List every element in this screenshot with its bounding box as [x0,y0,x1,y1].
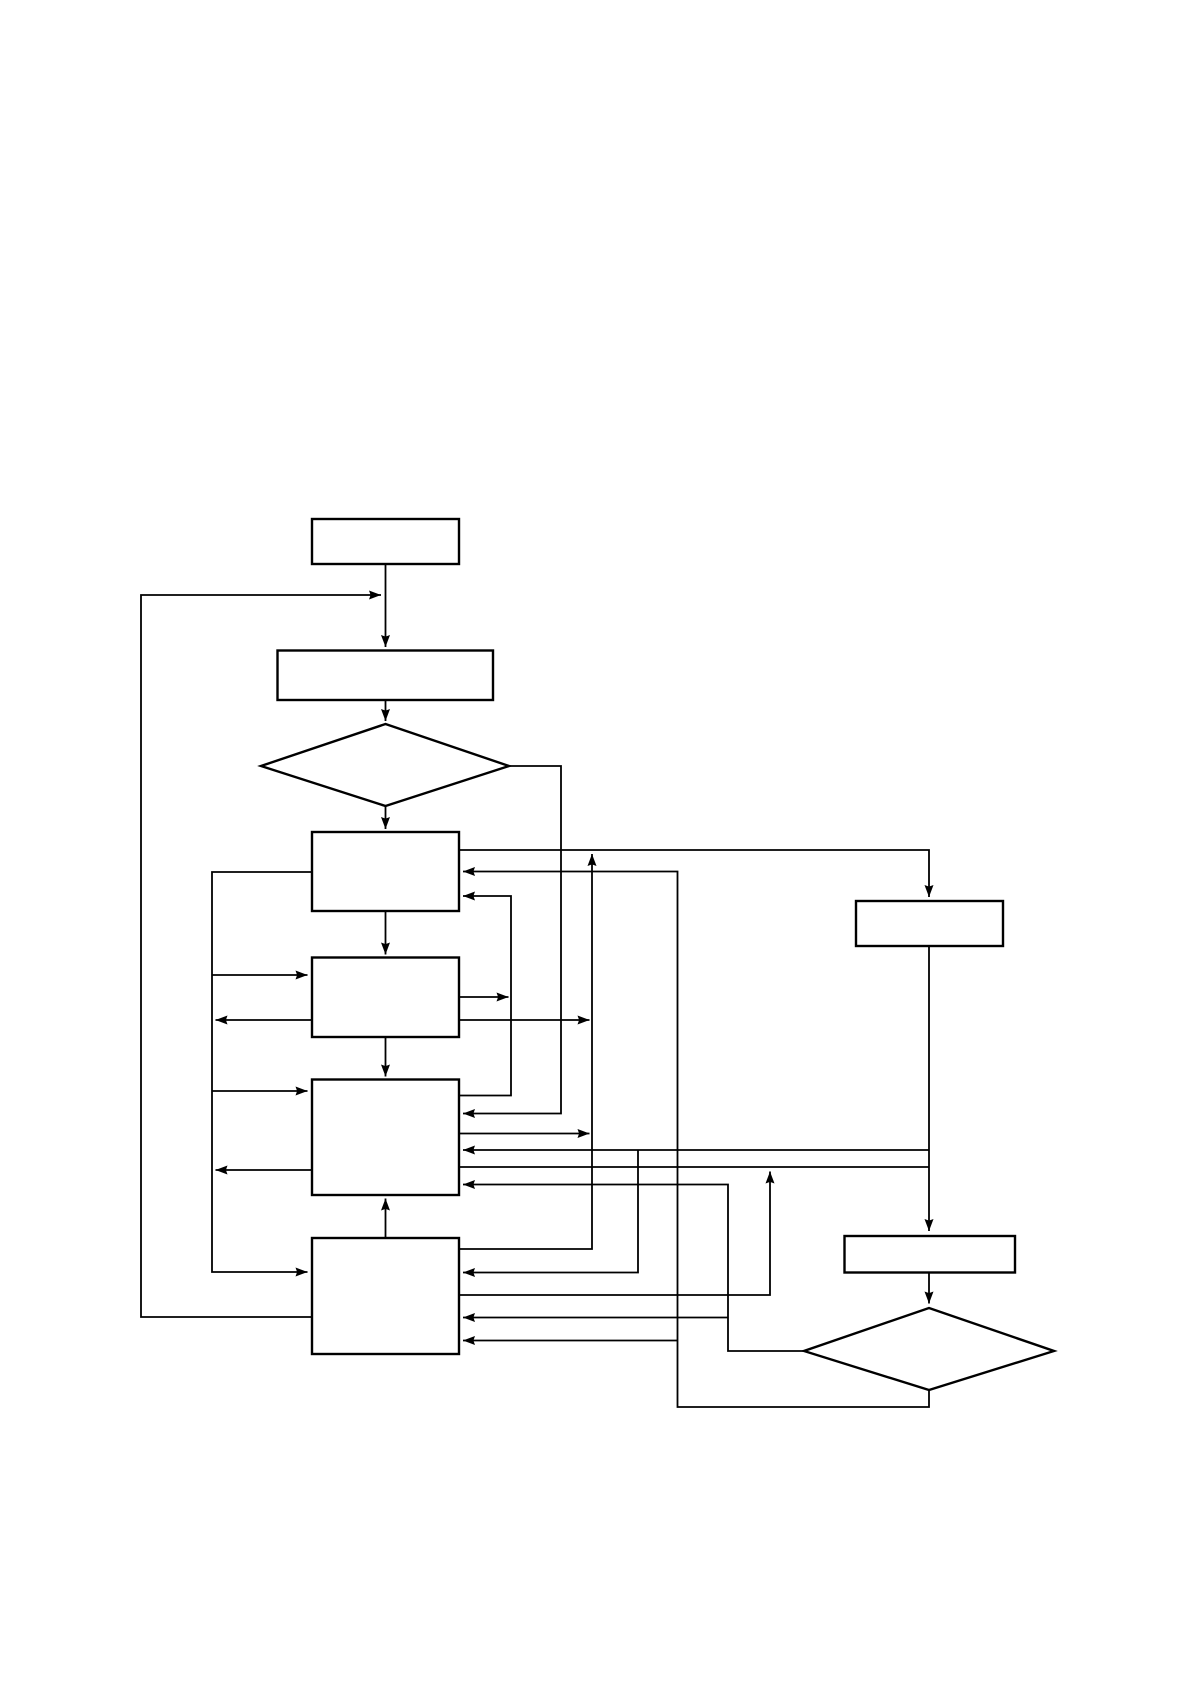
wire B5 right up to B3 right arrow [459,896,511,1096]
wire bus branch arrow into B4 left [212,974,308,976]
diamond D1 [261,724,509,806]
wire branch from D2-left line into B6 arrow [463,1317,728,1319]
wire branch down from B5 line into B6 arrow [463,1150,638,1273]
wire D1 to B3 arrow down [385,806,387,829]
wire B6 right up arrow to B5 1167 line [459,1172,770,1296]
box B5 [312,1080,459,1196]
wire B4 left out arrow to bus [216,1019,313,1021]
box B4 [312,958,459,1038]
wire B5 left out arrow to bus [216,1169,313,1171]
wire B6 right up arrow to B3-BA line [459,854,592,1249]
wire D2 left vertex up to B5 right arrow [463,1185,804,1352]
box B3 [312,832,459,911]
wire bus branch arrow into B5 left [212,1090,308,1092]
wire D1 right vertex down to B5 right arrow [463,766,561,1114]
wire B4 right out arrow long [459,1019,590,1021]
wire B3 right to BA top arrow [459,850,929,897]
wire left bus from B3 left down to B6 left arrow [212,872,312,1272]
wire B5 right out to BA-BB line [459,1166,929,1168]
wire D2 bottom vertex up to B3 right arrow [463,872,929,1408]
box BB right lower [845,1236,1016,1273]
diamond D2 [804,1308,1054,1390]
box B6 [312,1238,459,1354]
wire BB to D2 arrow down [928,1273,930,1304]
wire B3 to B4 arrow down [385,911,387,955]
wire from BA-BB line left arrow into B5 [463,1149,929,1151]
wire BA to BB arrow down [928,946,930,1231]
wire B6 to B5 arrow up [385,1199,387,1239]
box B1 top start [312,519,459,564]
wire branch from D2-bottom line into B6 arrow [463,1340,678,1342]
wire B2 to D1 arrow down [385,700,387,721]
wire B4 to B5 arrow down [385,1037,387,1077]
wire B4 right out arrow short [459,996,509,998]
wire B1 to B2 arrow down [385,564,387,647]
box BA right upper [856,901,1003,946]
wire long feedback from B6 left up to top arrow [141,595,381,1317]
box B2 [278,651,494,701]
wire B5 right out arrow [459,1133,590,1135]
